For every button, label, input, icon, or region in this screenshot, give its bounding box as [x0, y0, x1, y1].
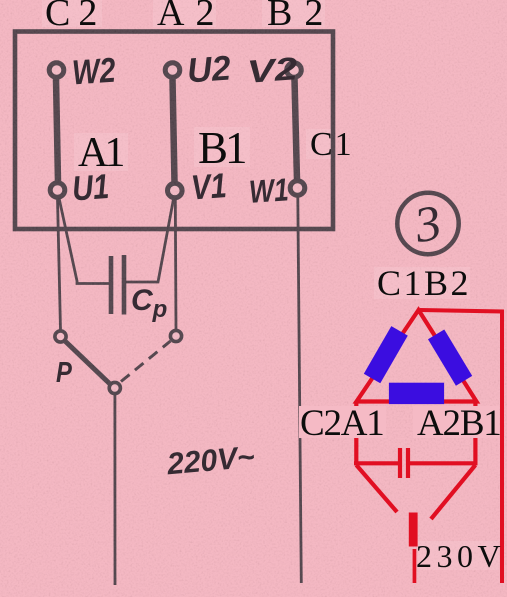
- red capacitor left plate: [398, 448, 402, 478]
- link bar W2-U1: [56, 79, 58, 182]
- label A1: [78, 132, 121, 174]
- switch P arm (closed contact): [66, 342, 111, 385]
- label U1: [71, 169, 110, 206]
- label C1: [310, 128, 354, 162]
- label W1: [248, 173, 289, 208]
- switch left contact circle: [55, 331, 66, 342]
- terminal W1: [290, 181, 305, 196]
- label 220V~: [166, 442, 256, 480]
- label A2B1: [417, 405, 501, 442]
- label Cp: [131, 286, 167, 322]
- label V1: [190, 169, 228, 206]
- label B2: [267, 0, 335, 32]
- label W2: [71, 53, 117, 91]
- terminal V1: [168, 183, 183, 198]
- label V2: [246, 52, 299, 87]
- figure number 3: [411, 197, 445, 251]
- wire U1 diagonal to capacitor left lead: [59, 198, 110, 284]
- winding A2-A1 (bottom blue): [389, 383, 444, 404]
- wire W1 down to supply: [298, 197, 302, 584]
- label 230V: [416, 540, 505, 572]
- winding B2-B1 (right blue): [428, 329, 472, 385]
- terminal box outline: [15, 32, 333, 230]
- switch pole circle: [109, 382, 120, 393]
- wire U1 down to switch: [58, 199, 61, 331]
- terminal U1: [50, 183, 65, 198]
- winding C1-C2 (left blue): [364, 326, 408, 383]
- capacitor Cp right plate: [122, 255, 127, 315]
- label P: [56, 359, 72, 388]
- wire switch pole down to supply: [114, 395, 117, 585]
- circled figure 3 ring: [397, 193, 458, 254]
- switch P dashed contact: [121, 341, 171, 382]
- red capacitor right lead: [410, 461, 478, 465]
- supply plug bar: [409, 513, 418, 547]
- label C2A1: [300, 405, 384, 442]
- label C1B2: [377, 265, 471, 301]
- wire right corner down: [473, 401, 477, 464]
- wire left corner down: [354, 401, 358, 464]
- switch right contact circle: [170, 330, 181, 341]
- capacitor right lead and diagonal to V1: [124, 199, 174, 282]
- link bar V2-W1: [295, 79, 298, 180]
- capacitor Cp left plate: [109, 256, 114, 314]
- left diagonal to plug: [356, 465, 397, 512]
- wire V1 down to switch: [174, 199, 177, 330]
- supply wire below plug: [413, 549, 417, 583]
- wire apex to right edge: [420, 310, 502, 583]
- label A2: [157, 0, 225, 32]
- terminal U2: [165, 63, 180, 78]
- link bar U2-V1: [173, 79, 175, 182]
- terminal W2: [49, 63, 64, 78]
- delta triangle: [357, 310, 477, 402]
- label B1: [198, 126, 245, 171]
- label U2: [186, 51, 232, 89]
- terminal V2: [287, 63, 302, 78]
- red capacitor left lead: [354, 461, 398, 465]
- red capacitor right plate: [406, 448, 410, 478]
- label C2: [45, 0, 105, 32]
- right diagonal to plug: [431, 465, 475, 519]
